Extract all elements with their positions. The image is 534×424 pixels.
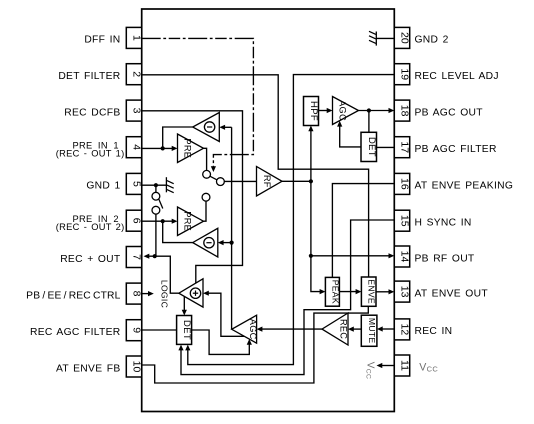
pin 14 box (394, 246, 410, 267)
pin 1 label DFF IN (84, 35, 120, 46)
wire pin 6 to PRE2 input (142, 220, 174, 222)
wire DET2 output to AGC2 control (192, 330, 250, 354)
svg-text:AGC: AGC (248, 319, 258, 340)
wire MUTE to REC amp (352, 328, 362, 330)
arrowhead into pin 7 (144, 254, 150, 259)
switch contact C (PRE2 out) (202, 193, 210, 201)
filter block HPF (304, 97, 320, 126)
pin 12 label REC IN (415, 326, 453, 337)
wire PRE2 output to switch contact C (204, 201, 207, 221)
pin 20 label GND 2 (415, 35, 449, 46)
svg-text:3: 3 (131, 108, 143, 114)
svg-text:20: 20 (399, 32, 411, 44)
wire pin5 node down to switch circle D (155, 185, 157, 192)
mute block MUTE (361, 315, 377, 346)
svg-text:AGC: AGC (337, 100, 347, 121)
pin 2 box (126, 64, 142, 85)
pin 6 box (126, 210, 142, 231)
svg-text:DET: DET (181, 320, 192, 340)
arrowhead into PEAK left (320, 289, 326, 294)
wire pin 3 REC DCFB to summing amp top (142, 111, 243, 283)
arrowhead into DET2 bottom from H SYNC (178, 345, 183, 351)
wire RF output down to PEAK (311, 181, 322, 291)
op-amp REC (322, 313, 349, 345)
wire PRE1 output to switch contact A (204, 148, 207, 170)
switch arm D-E (159, 199, 163, 209)
switch contact D (GND switch) (152, 192, 160, 200)
wire AGC2 bus to I1 input (223, 126, 232, 128)
wire pin 16 to PEAK top (332, 184, 394, 278)
pin 10 label AT ENVE FB (56, 363, 121, 374)
pin 19 box (394, 64, 410, 85)
pin 17 label PB AGC FILTER (415, 144, 497, 155)
wire pin 9 to DET2 (142, 329, 177, 331)
op-amp PRE1 (178, 134, 204, 163)
arrowhead into AGC1 (327, 108, 333, 113)
pin 7 label REC + OUT (60, 254, 121, 265)
svg-text:MUTE: MUTE (367, 318, 377, 344)
op-amp RF (257, 167, 283, 197)
junction pin 6 node (161, 219, 165, 223)
ground symbol GND2 (pin 20) (369, 31, 376, 45)
op-amp SUM (record sum) (179, 279, 203, 307)
wire RF output up to HPF (310, 129, 312, 182)
arrowhead into summing amp input (203, 291, 209, 296)
IC body outline (142, 9, 395, 412)
peak block PEAK (325, 277, 340, 306)
op-amp I2 (current amp) (193, 228, 218, 257)
svg-text:PB AGC OUT: PB AGC OUT (415, 107, 484, 118)
wire pin 4 to PRE1 input (142, 147, 174, 149)
wire DET1 to pin 17 (377, 146, 395, 148)
switch contact A (PRE1 out) (203, 170, 211, 178)
pin 10 box (126, 356, 142, 377)
svg-text:14: 14 (399, 251, 411, 263)
pin 3 box (126, 100, 142, 121)
svg-text:AT ENVE FB: AT ENVE FB (56, 363, 121, 374)
arrowhead into pin 18 (389, 108, 395, 113)
wire DET1 to AGC1 control (340, 124, 361, 147)
arrowhead into AGC1 bottom edge (337, 121, 342, 127)
wire ENVE to pin 13 (376, 291, 391, 293)
arrowhead Vcc supply (377, 363, 383, 368)
wire AGC1 output to pin 18 (359, 110, 391, 112)
arrowhead into PRE2 (172, 219, 178, 224)
junction RF output (309, 179, 313, 183)
svg-text:PRE: PRE (182, 138, 192, 158)
pin 11 label Vcc (419, 361, 438, 373)
svg-text:PB AGC FILTER: PB AGC FILTER (415, 144, 497, 155)
svg-text:11: 11 (399, 360, 411, 371)
switch arm A-B (210, 176, 217, 180)
svg-text:AT ENVE PEAKING: AT ENVE PEAKING (415, 181, 514, 192)
svg-text:18: 18 (399, 105, 411, 117)
svg-text:6: 6 (131, 218, 143, 224)
arrowhead into pin 13 (389, 289, 395, 294)
pin 5 box (126, 173, 142, 194)
svg-text:PRE: PRE (182, 211, 192, 231)
detector block DET2 (177, 316, 193, 345)
wire I1 feedback to pin 4 node (163, 127, 193, 148)
arrowhead into MUTE right (377, 326, 383, 331)
svg-text:1: 1 (131, 35, 143, 41)
svg-text:H SYNC IN: H SYNC IN (415, 218, 472, 229)
arrowhead into DET2 bottom from pin 19 (185, 345, 190, 351)
arrowhead into LOGIC (148, 291, 154, 296)
pin 8 box (126, 283, 142, 304)
svg-text:PB / EE / REC CTRL: PB / EE / REC CTRL (26, 290, 120, 301)
wire HPF to AGC1 (319, 110, 330, 112)
svg-text:5: 5 (131, 181, 143, 187)
pin 4 box (126, 137, 142, 158)
wire AGC2 lower tap to summing amp (207, 293, 245, 336)
pin 7 box (126, 247, 142, 268)
pin 15 box (394, 210, 410, 231)
pin 13 box (394, 281, 410, 302)
pin 8 label PB / EE / REC CTRL (26, 290, 120, 301)
pin 13 label AT ENVE OUT (415, 288, 489, 299)
arrowhead into I2 (218, 240, 224, 245)
pin 4 label PRE IN 1 (REC - OUT 1) (56, 140, 125, 158)
arrowhead switch control (DFF IN) (211, 166, 216, 172)
junction AGC2 bus at I2 (230, 241, 234, 245)
svg-text:7: 7 (131, 254, 143, 260)
svg-text:REC LEVEL ADJ: REC LEVEL ADJ (415, 71, 499, 82)
svg-text:HPF: HPF (308, 101, 319, 121)
arrowhead into pin 14 (389, 253, 395, 258)
pin 3 label REC DCFB (64, 107, 120, 118)
svg-text:GND 1: GND 1 (86, 181, 120, 192)
wire pin 11 to Vcc (380, 365, 395, 367)
svg-text:REC IN: REC IN (415, 326, 453, 337)
wire I2 feedback to pin 6 node (163, 221, 193, 242)
wire to pin 14 PB RF OUT (311, 255, 391, 257)
svg-text:GND 2: GND 2 (415, 35, 449, 46)
arrowhead into I1 (219, 125, 225, 130)
svg-text:16: 16 (399, 178, 411, 190)
wire pin 1 DFF IN dash-dot to switch (142, 38, 254, 166)
svg-text:(REC - OUT 1): (REC - OUT 1) (56, 149, 125, 159)
wire AGC1 output down to DET1 (368, 111, 370, 133)
op-amp AGC2 (REC AGC) (232, 315, 258, 343)
wire pin 8 to LOGIC (142, 293, 150, 295)
svg-text:DFF IN: DFF IN (84, 35, 120, 46)
arrowhead into AGC2 lower edge (247, 339, 252, 345)
svg-text:PEAK: PEAK (330, 280, 340, 304)
pin 11 box (394, 355, 410, 376)
svg-text:PB RF OUT: PB RF OUT (415, 253, 475, 264)
svg-text:AT ENVE OUT: AT ENVE OUT (415, 288, 489, 299)
op-amp PRE2 (178, 207, 204, 236)
junction pin 5 node (154, 183, 158, 187)
wire AGC2 apex up the I-amp bus (231, 127, 233, 329)
wire switch E down to pin 7 node (155, 214, 157, 256)
svg-text:REC DCFB: REC DCFB (64, 107, 120, 118)
pin 18 box (394, 100, 410, 121)
svg-text:ENVE: ENVE (367, 279, 377, 304)
pin 6 label PRE IN 2 (REC - OUT 2) (56, 214, 125, 232)
wire REC output to AGC2 (260, 328, 322, 330)
junction pin 4 node (161, 146, 165, 150)
svg-text:REC: REC (339, 319, 349, 339)
pin 14 label PB RF OUT (415, 253, 475, 264)
pin 17 box (394, 137, 410, 158)
svg-text:2: 2 (131, 71, 143, 77)
pin 5 label GND 1 (86, 181, 120, 192)
pin 16 label AT ENVE PEAKING (415, 181, 514, 192)
svg-text:RF: RF (262, 175, 272, 188)
wire pin 12 REC IN to MUTE (381, 328, 395, 330)
pin 9 box (126, 320, 142, 341)
arrowhead into HPF bottom (308, 126, 313, 132)
wire pin 20 to ground (376, 37, 394, 39)
svg-text:DET FILTER: DET FILTER (58, 71, 120, 82)
svg-text:19: 19 (399, 68, 411, 80)
arrowhead into DET2 top (182, 310, 187, 316)
svg-text:(REC - OUT 2): (REC - OUT 2) (56, 222, 125, 232)
wire summing amp output down to DET2 (183, 296, 185, 312)
svg-text:15: 15 (399, 215, 411, 227)
pin 19 label REC LEVEL ADJ (415, 71, 499, 82)
wire pin 19 to DET2 bottom (REC LEVEL ADJ path) (188, 75, 394, 365)
ground symbol GND1 (pin 5) (166, 177, 173, 193)
pin 2 label DET FILTER (58, 71, 120, 82)
wire pin 10 AT ENVE FB to ENVE bottom (142, 306, 369, 383)
junction AGC1 output (367, 108, 371, 112)
svg-text:LOGIC: LOGIC (159, 280, 169, 308)
wire RF output node (282, 180, 311, 182)
pin 20 box (394, 27, 410, 48)
svg-text:9: 9 (131, 327, 143, 333)
arrowhead into ENVE left (356, 289, 362, 294)
svg-text:REC AGC FILTER: REC AGC FILTER (30, 327, 121, 338)
pin 1 box (126, 27, 142, 48)
pin 12 box (394, 319, 410, 340)
svg-text:4: 4 (131, 144, 143, 150)
pin 18 label PB AGC OUT (415, 107, 484, 118)
wire switch B to RF input (224, 180, 256, 182)
svg-text:8: 8 (131, 291, 143, 297)
node Vcc label (365, 362, 376, 379)
arrowhead into REC base (348, 327, 354, 332)
wire AGC2 bus to I2 input (221, 242, 231, 244)
svg-text:17: 17 (399, 141, 411, 153)
svg-text:REC + OUT: REC + OUT (60, 254, 121, 265)
junction PB RF OUT tap (309, 254, 313, 258)
wire pin 15 H SYNC to DET2 bottom (181, 220, 394, 375)
svg-text:13: 13 (399, 286, 411, 298)
svg-text:12: 12 (399, 324, 411, 336)
pin 9 label REC AGC FILTER (30, 327, 121, 338)
svg-text:DET: DET (366, 137, 377, 157)
junction pin 7 node (153, 254, 157, 258)
op-amp I1 (current amp) (193, 113, 220, 142)
arrowhead into PRE1 (172, 146, 178, 151)
wire pin 2 DET FILTER to ENVE top (142, 75, 369, 277)
switch contact B (to RF) (217, 178, 225, 186)
wire pin 5 to ground GND1 (142, 184, 167, 186)
arrowhead into AGC2 base (257, 327, 263, 332)
svg-text:10: 10 (131, 361, 143, 373)
envelope block ENVE (361, 277, 376, 306)
switch contact E (GND switch) (152, 206, 160, 214)
pin 16 box (394, 173, 410, 194)
wire summing amp output to pin 7 (145, 256, 179, 293)
detector block DET1 (361, 132, 377, 161)
logic block LOGIC text (159, 280, 169, 308)
pin 15 label H SYNC IN (415, 218, 472, 229)
wire PEAK to ENVE (339, 291, 358, 293)
op-amp AGC1 (PB AGC) (333, 97, 359, 125)
